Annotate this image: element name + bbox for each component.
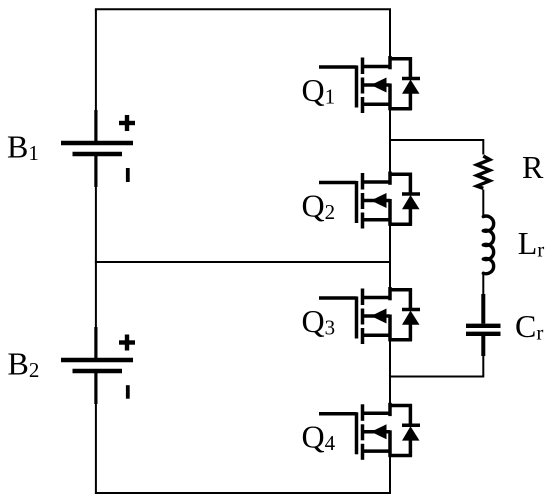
Q4 gate electrode bar — [355, 412, 359, 454]
svg-text:Q3: Q3 — [302, 303, 336, 340]
body diode D2 cathode lead — [409, 173, 413, 194]
transistor Q3 (N-channel MOSFET) — [319, 287, 420, 344]
inductor Lr (coil) — [483, 216, 493, 274]
Q1 body arrowhead — [371, 78, 387, 93]
body diode D2 top bar — [389, 172, 412, 176]
wire: right bus segment Q1 source to Q2 drain (node A) — [389, 110, 391, 173]
svg-text:B1: B1 — [7, 129, 39, 166]
transistor Q4 (N-channel MOSFET) — [319, 403, 420, 460]
Q4 drain stub vertical — [388, 403, 392, 416]
B1 minus sign (vertical tick) — [126, 168, 130, 182]
body diode D3 anode triangle — [402, 311, 420, 325]
body diode D4 anode lead — [409, 439, 413, 457]
Cr top lead (thick) — [481, 294, 485, 324]
Q3 drain stub vertical — [388, 287, 392, 300]
Q4 channel source segment — [361, 444, 365, 460]
svg-text:Q4: Q4 — [302, 419, 336, 456]
body diode D1 bottom bar — [389, 107, 412, 111]
Q3 body arrow line — [363, 314, 391, 318]
Q4 source stub vertical — [388, 430, 392, 457]
Q2 source stub vertical — [388, 199, 392, 226]
transistor Q2 (N-channel MOSFET) — [319, 172, 420, 229]
capacitor Cr — [466, 294, 501, 356]
wire: left bus lower (B2 - to bottom rail) — [95, 373, 97, 494]
Q3 channel source segment — [361, 328, 365, 344]
B1 positive plate (long) — [61, 141, 133, 145]
wire: right bus segment Q2 source to Q3 drain through middle rail — [389, 226, 391, 289]
Q2 body arrowhead — [371, 193, 387, 208]
wire: bottom rail — [95, 492, 391, 494]
wire: right bus segment Q4 source to bottom rail — [389, 457, 391, 493]
B2 negative plate (short) — [73, 369, 123, 373]
body diode D1 cathode lead — [409, 57, 413, 78]
Q1 channel body segment — [361, 78, 365, 94]
Q2 drain stub vertical — [388, 172, 392, 185]
B1 positive lead (thick) — [94, 110, 97, 142]
wire: left bus middle (B1 - to B2 +) — [95, 156, 97, 359]
Q1 channel drain segment — [361, 58, 365, 75]
Q3 drain contact line — [363, 296, 391, 300]
Q3 gate lead — [319, 296, 357, 300]
Q3 source stub vertical — [388, 315, 392, 342]
Q1 source contact line — [363, 103, 391, 107]
body diode D3 cathode bar — [402, 308, 420, 312]
wire: top rail — [95, 8, 391, 10]
Q2 channel body segment — [361, 193, 365, 209]
svg-text:B2: B2 — [8, 346, 40, 383]
body diode D2 anode triangle — [402, 195, 420, 209]
body diode D4 anode triangle — [402, 426, 420, 440]
svg-text:Q1: Q1 — [302, 72, 336, 109]
wire: R to Lr — [482, 190, 484, 217]
wire: middle rail (battery midpoint tie, node M) — [95, 261, 390, 263]
body diode D4 top bar — [389, 404, 412, 408]
Q2 gate lead — [319, 181, 357, 185]
Q2 source contact line — [363, 218, 391, 222]
body diode D4 cathode lead — [409, 404, 413, 425]
Q1 gate electrode bar — [355, 66, 359, 108]
Q4 channel body segment — [361, 424, 365, 440]
B2 minus sign (vertical tick) — [126, 385, 130, 399]
body diode D1 anode lead — [409, 92, 413, 110]
Cr bottom plate — [466, 332, 501, 336]
body diode D4 bottom bar — [389, 454, 412, 458]
Q2 drain contact line — [363, 180, 391, 184]
Q3 channel drain segment — [361, 289, 365, 306]
B2 plus sign — [119, 340, 135, 344]
body diode D3 anode lead — [409, 323, 413, 341]
body diode D2 bottom bar — [389, 222, 412, 226]
body diode D1 cathode bar — [402, 77, 420, 81]
svg-text:R: R — [522, 149, 544, 185]
resistor R (zigzag) — [477, 156, 490, 188]
Q1 body arrow line — [363, 83, 391, 87]
B2 negative lead (thick) — [94, 372, 97, 404]
body diode D2 anode lead — [409, 208, 413, 226]
Q1 drain stub vertical — [388, 56, 392, 69]
body diode D4 cathode bar — [402, 424, 420, 428]
battery B2 — [61, 327, 135, 404]
Q1 drain contact line — [363, 65, 391, 69]
Q1 gate lead — [319, 65, 357, 69]
body diode D1 top bar — [389, 57, 412, 61]
B1 negative plate (short) — [73, 152, 123, 156]
Q2 gate electrode bar — [355, 181, 359, 223]
svg-text:Q2: Q2 — [302, 188, 336, 225]
svg-text:Lr: Lr — [518, 225, 545, 262]
Q4 source contact line — [363, 449, 391, 453]
wire: resonant branch top (node A to R) — [390, 140, 483, 155]
Q2 channel source segment — [361, 213, 365, 229]
transistor Q1 (N-channel MOSFET) — [319, 56, 420, 113]
Cr top plate — [466, 324, 501, 328]
Q4 body arrowhead — [371, 424, 387, 439]
body diode D2 cathode bar — [402, 192, 420, 196]
Q4 gate lead — [319, 412, 357, 416]
B2 positive plate (long) — [61, 358, 133, 362]
Q2 body arrow line — [363, 199, 391, 203]
Q2 channel drain segment — [361, 173, 365, 190]
body diode D3 cathode lead — [409, 288, 413, 309]
Q4 drain contact line — [363, 412, 391, 416]
Q3 body arrowhead — [371, 309, 387, 324]
body diode D1 anode triangle — [402, 80, 420, 94]
Q3 gate electrode bar — [355, 297, 359, 339]
Q3 source contact line — [363, 334, 391, 338]
B1 negative lead (thick) — [94, 155, 97, 187]
body diode D3 top bar — [389, 288, 412, 292]
wire: resonant branch bottom (Cr to node B) — [390, 355, 483, 377]
Q4 channel drain segment — [361, 404, 365, 421]
wire: left bus upper (top rail to B1 +) — [95, 9, 97, 141]
Q3 channel body segment — [361, 309, 365, 325]
battery B1 — [61, 110, 135, 187]
svg-text:Cr: Cr — [515, 308, 543, 345]
body diode D3 bottom bar — [389, 338, 412, 342]
Q4 body arrow line — [363, 430, 391, 434]
B1 plus sign — [119, 121, 135, 125]
Q1 source stub vertical — [388, 84, 392, 111]
Q1 channel source segment — [361, 97, 365, 113]
B2 positive lead (thick) — [94, 327, 97, 359]
wire: Lr to Cr — [482, 274, 484, 296]
Cr bottom lead (thick) — [481, 336, 485, 356]
wire: right bus segment Q3 source to Q4 drain (node B) — [389, 341, 391, 404]
wire: right bus segment top rail to Q1 drain — [389, 9, 391, 57]
